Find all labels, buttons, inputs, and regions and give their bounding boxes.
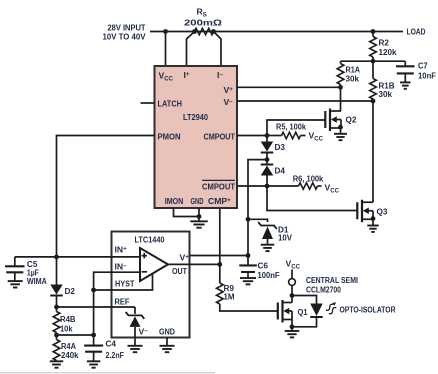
ground below Q1 [291,320,293,332]
node: VCC tap junction [163,29,168,34]
svg-text:Q2: Q2 [346,115,357,125]
svg-text:CCLM2700: CCLM2700 [306,285,341,295]
wire: LATCH stub [141,102,155,104]
svg-text:LT2940: LT2940 [183,112,208,122]
wire: right rail R1B bottom to Q3 drain [372,101,374,202]
node: CMPOUT-bar / D4 / Q3 gate [265,184,270,189]
ground below R4A [50,360,64,362]
svg-text:30k: 30k [379,89,393,99]
node: CMPOUT / R5 / D3 / Q2 gate [265,133,270,138]
node: Q2 source [338,125,343,130]
wire: IN- / HYST feedback vertical [94,272,112,335]
ground below LTC1440 GND [160,345,175,347]
svg-text:WIMA: WIMA [27,276,47,286]
page edge artifact [0,372,215,374]
zener D1 10V [258,222,277,229]
wire: 28V input rail to LOAD [150,31,403,33]
wire: Q2 gate line [267,120,325,136]
resistor R1B 30k [372,61,374,78]
wire: VCC pin drop [165,32,167,67]
svg-text:REF: REF [115,297,130,307]
wire: PMON net to comparator IN+ [57,136,155,257]
transistor Q3 [361,200,363,223]
svg-text:C6: C6 [258,261,269,271]
node: Q1 drain / opto anode [290,293,295,298]
op-amp triangle LTC1440 [140,248,168,281]
wire: V- pin to R1B bottom [237,100,373,102]
comparator U2 LTC1440 block [112,232,190,338]
resistor R5 100k [267,135,282,137]
resistor RS 200mOhm [195,28,214,34]
wire: I+ sense drop [187,32,195,67]
wire: branch to zener D1 [248,219,268,222]
wire: OUT line to CMP+ net [190,263,220,265]
ground below Q3 source [372,219,374,225]
ground below C7 [400,81,411,83]
svg-text:GND: GND [159,327,175,337]
node: D1 branch junction [246,217,251,222]
resistor R6 100k [267,185,299,187]
capacitor C6 100nF [247,256,249,266]
svg-text:200mΩ: 200mΩ [184,17,222,27]
resistor R9 1M [219,264,221,283]
node: PMON / C5 / IN+ / D2 [54,255,59,260]
wire: HYST pin to triangle bottom [112,273,153,290]
svg-text:10V TO 40V: 10V TO 40V [103,31,146,41]
svg-text:PMON: PMON [158,132,181,142]
node: HYST tap [91,288,96,293]
wire: IN- pin to triangle [112,271,141,273]
ground below C5 [8,280,23,282]
wire: opto branch top [292,296,317,304]
diode D3 [266,136,268,142]
svg-text:C7: C7 [418,61,428,71]
node: D3 cathode / D4 cathode junction [265,157,270,162]
svg-text:LATCH: LATCH [158,99,183,109]
svg-text:R6, 100k: R6, 100k [293,173,324,183]
wire: CMPOUT-bar to R6 [237,185,267,187]
node: D2 cathode / REF / R4B [54,305,59,310]
terminal circle VCC [291,270,293,279]
wire: GND pin drop [166,338,168,346]
svg-text:2.2nF: 2.2nF [106,350,125,360]
ground below V- pin [128,345,143,347]
svg-text:OUT: OUT [172,266,188,276]
node: V+ / R1A / Q2 drain [338,85,343,90]
svg-text:R2: R2 [379,38,390,48]
op-amp U1 LT2940 block [155,66,238,208]
wire: C5 to IN+ pin [15,256,112,258]
node: Q3 source [371,216,376,221]
wire: CMP+ pin drop from LT2940 [219,208,221,264]
diode D4 [266,160,268,165]
svg-text:10nF: 10nF [418,71,436,81]
wire: VCC terminal to Q1 drain [291,285,293,295]
node: R4B / R4A divider junction [54,333,59,338]
node: V- / R1B / Q3 drain [371,99,376,104]
svg-text:120k: 120k [379,47,397,57]
ground below C4 [87,360,101,362]
resistor R2 120k [372,32,374,37]
svg-text:Q3: Q3 [377,207,388,217]
wire: REF net to LTC1440 [57,306,136,308]
wire: Q1 drain up [291,296,293,303]
minus input mark [142,271,147,273]
svg-text:Q1: Q1 [298,307,308,317]
wire: branch from D3/D4 node down to D1 and C6 [248,160,267,256]
node: R2 bottom divider node [371,59,376,64]
wire: I- sense drop [214,32,222,67]
svg-text:LOAD: LOAD [407,27,426,37]
svg-text:D4: D4 [275,166,286,176]
svg-text:GND: GND [191,196,204,206]
transistor Q1 [281,300,283,323]
svg-text:100nF: 100nF [258,270,280,280]
ground below D1 [261,244,275,246]
diode D2 [56,257,58,285]
resistor R1A 30k [340,61,342,63]
ground below Q2 source [340,128,342,134]
ground below C6 [240,277,256,279]
wire: divider junction to C4 / feedback [57,334,94,336]
svg-text:CMPOUT: CMPOUT [202,182,236,192]
node: C4 / IN- / HYST junction [91,333,96,338]
svg-text:240k: 240k [61,350,79,360]
wire: IMON pin to GND [174,208,200,217]
wire: OUT from apex to box edge [168,263,190,265]
internal reference zener of LTC1440 [134,307,136,314]
svg-text:30k: 30k [346,74,360,84]
opto light arrows [326,304,333,310]
svg-text:10k: 10k [60,323,73,333]
svg-text:CENTRAL SEMI: CENTRAL SEMI [306,275,358,285]
transistor Q2 [329,109,331,132]
wire: IN+ pin to triangle [112,256,141,258]
ground below LT2940 GND [190,220,208,222]
wire: GND pin drop of LT2940 [198,208,200,221]
node: comparator V+ supply node [246,253,251,258]
svg-text:OPTO-ISOLATOR: OPTO-ISOLATOR [340,305,397,315]
node: Q1 source / opto return [290,324,295,329]
svg-text:HYST: HYST [115,279,135,289]
resistor R4B 10k [56,307,58,312]
svg-text:D2: D2 [65,286,76,296]
wire: comparator V+ line to supply node [190,255,249,257]
node: RS left terminal [192,29,197,34]
capacitor C7 10nF [404,61,406,66]
svg-text:R5, 100k: R5, 100k [276,121,306,131]
wire: divider node rail R1A to C7 [341,60,406,62]
resistor R4A 240k [56,335,58,340]
svg-text:1M: 1M [224,292,235,302]
svg-text:LTC1440: LTC1440 [135,235,165,245]
capacitor C5 1uF WIMA [14,257,16,266]
capacitor C4 2.2nF [93,335,95,346]
svg-text:D3: D3 [275,142,286,152]
node: R2 / LOAD junction [371,29,376,34]
svg-text:C4: C4 [106,339,117,349]
wire: Q3 gate line [267,186,357,211]
node: RS right terminal [211,29,216,34]
wire: V+ pin to R1A bottom [237,86,341,88]
wire: Q2 drain up to V+ rail [340,87,342,111]
node: OUT / CMP+ / R9 [217,262,222,267]
opto-isolator LED CCLM2700 [310,304,323,317]
svg-text:CMPOUT: CMPOUT [204,132,236,142]
svg-text:10V: 10V [278,233,292,243]
wire: CMPOUT to R5 node [237,135,267,137]
svg-text:IMON: IMON [165,196,184,206]
wire: HYST tap to pin [94,289,112,291]
plus input mark [142,255,147,257]
node: IMON/GND junction [197,214,202,219]
